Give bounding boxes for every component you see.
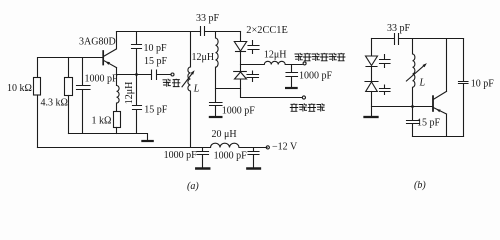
svg-text:1 kΩ: 1 kΩ: [92, 115, 112, 126]
svg-text:1000 pF: 1000 pF: [299, 71, 333, 82]
svg-text:L: L: [193, 83, 200, 94]
svg-text:33 pF: 33 pF: [196, 13, 220, 24]
svg-text:1000 pF: 1000 pF: [222, 105, 256, 116]
svg-text:20 μH: 20 μH: [212, 129, 237, 140]
svg-text:2×2CC1E: 2×2CC1E: [246, 25, 287, 36]
svg-text:L: L: [419, 78, 426, 89]
svg-text:1000 pF: 1000 pF: [164, 150, 198, 161]
svg-text:15 pF: 15 pF: [417, 117, 441, 128]
svg-text:15 pF: 15 pF: [144, 105, 168, 116]
svg-text:(b): (b): [414, 180, 426, 191]
svg-text:10 pF: 10 pF: [471, 78, 495, 89]
svg-text:12μH: 12μH: [192, 52, 215, 63]
svg-text:1000 pF: 1000 pF: [85, 74, 119, 85]
svg-text:33 pF: 33 pF: [387, 23, 411, 34]
svg-text:10 kΩ: 10 kΩ: [7, 83, 32, 94]
svg-text:4.3 kΩ: 4.3 kΩ: [41, 98, 68, 109]
svg-text:3AG80D: 3AG80D: [79, 36, 116, 47]
svg-text:−12 V: −12 V: [272, 141, 298, 152]
svg-text:15 pF: 15 pF: [144, 56, 168, 67]
svg-text:10 pF: 10 pF: [144, 43, 168, 54]
svg-text:12μH: 12μH: [264, 49, 287, 60]
svg-text:12μH: 12μH: [124, 82, 135, 105]
svg-text:1000 pF: 1000 pF: [214, 150, 248, 161]
svg-text:(a): (a): [187, 181, 199, 192]
